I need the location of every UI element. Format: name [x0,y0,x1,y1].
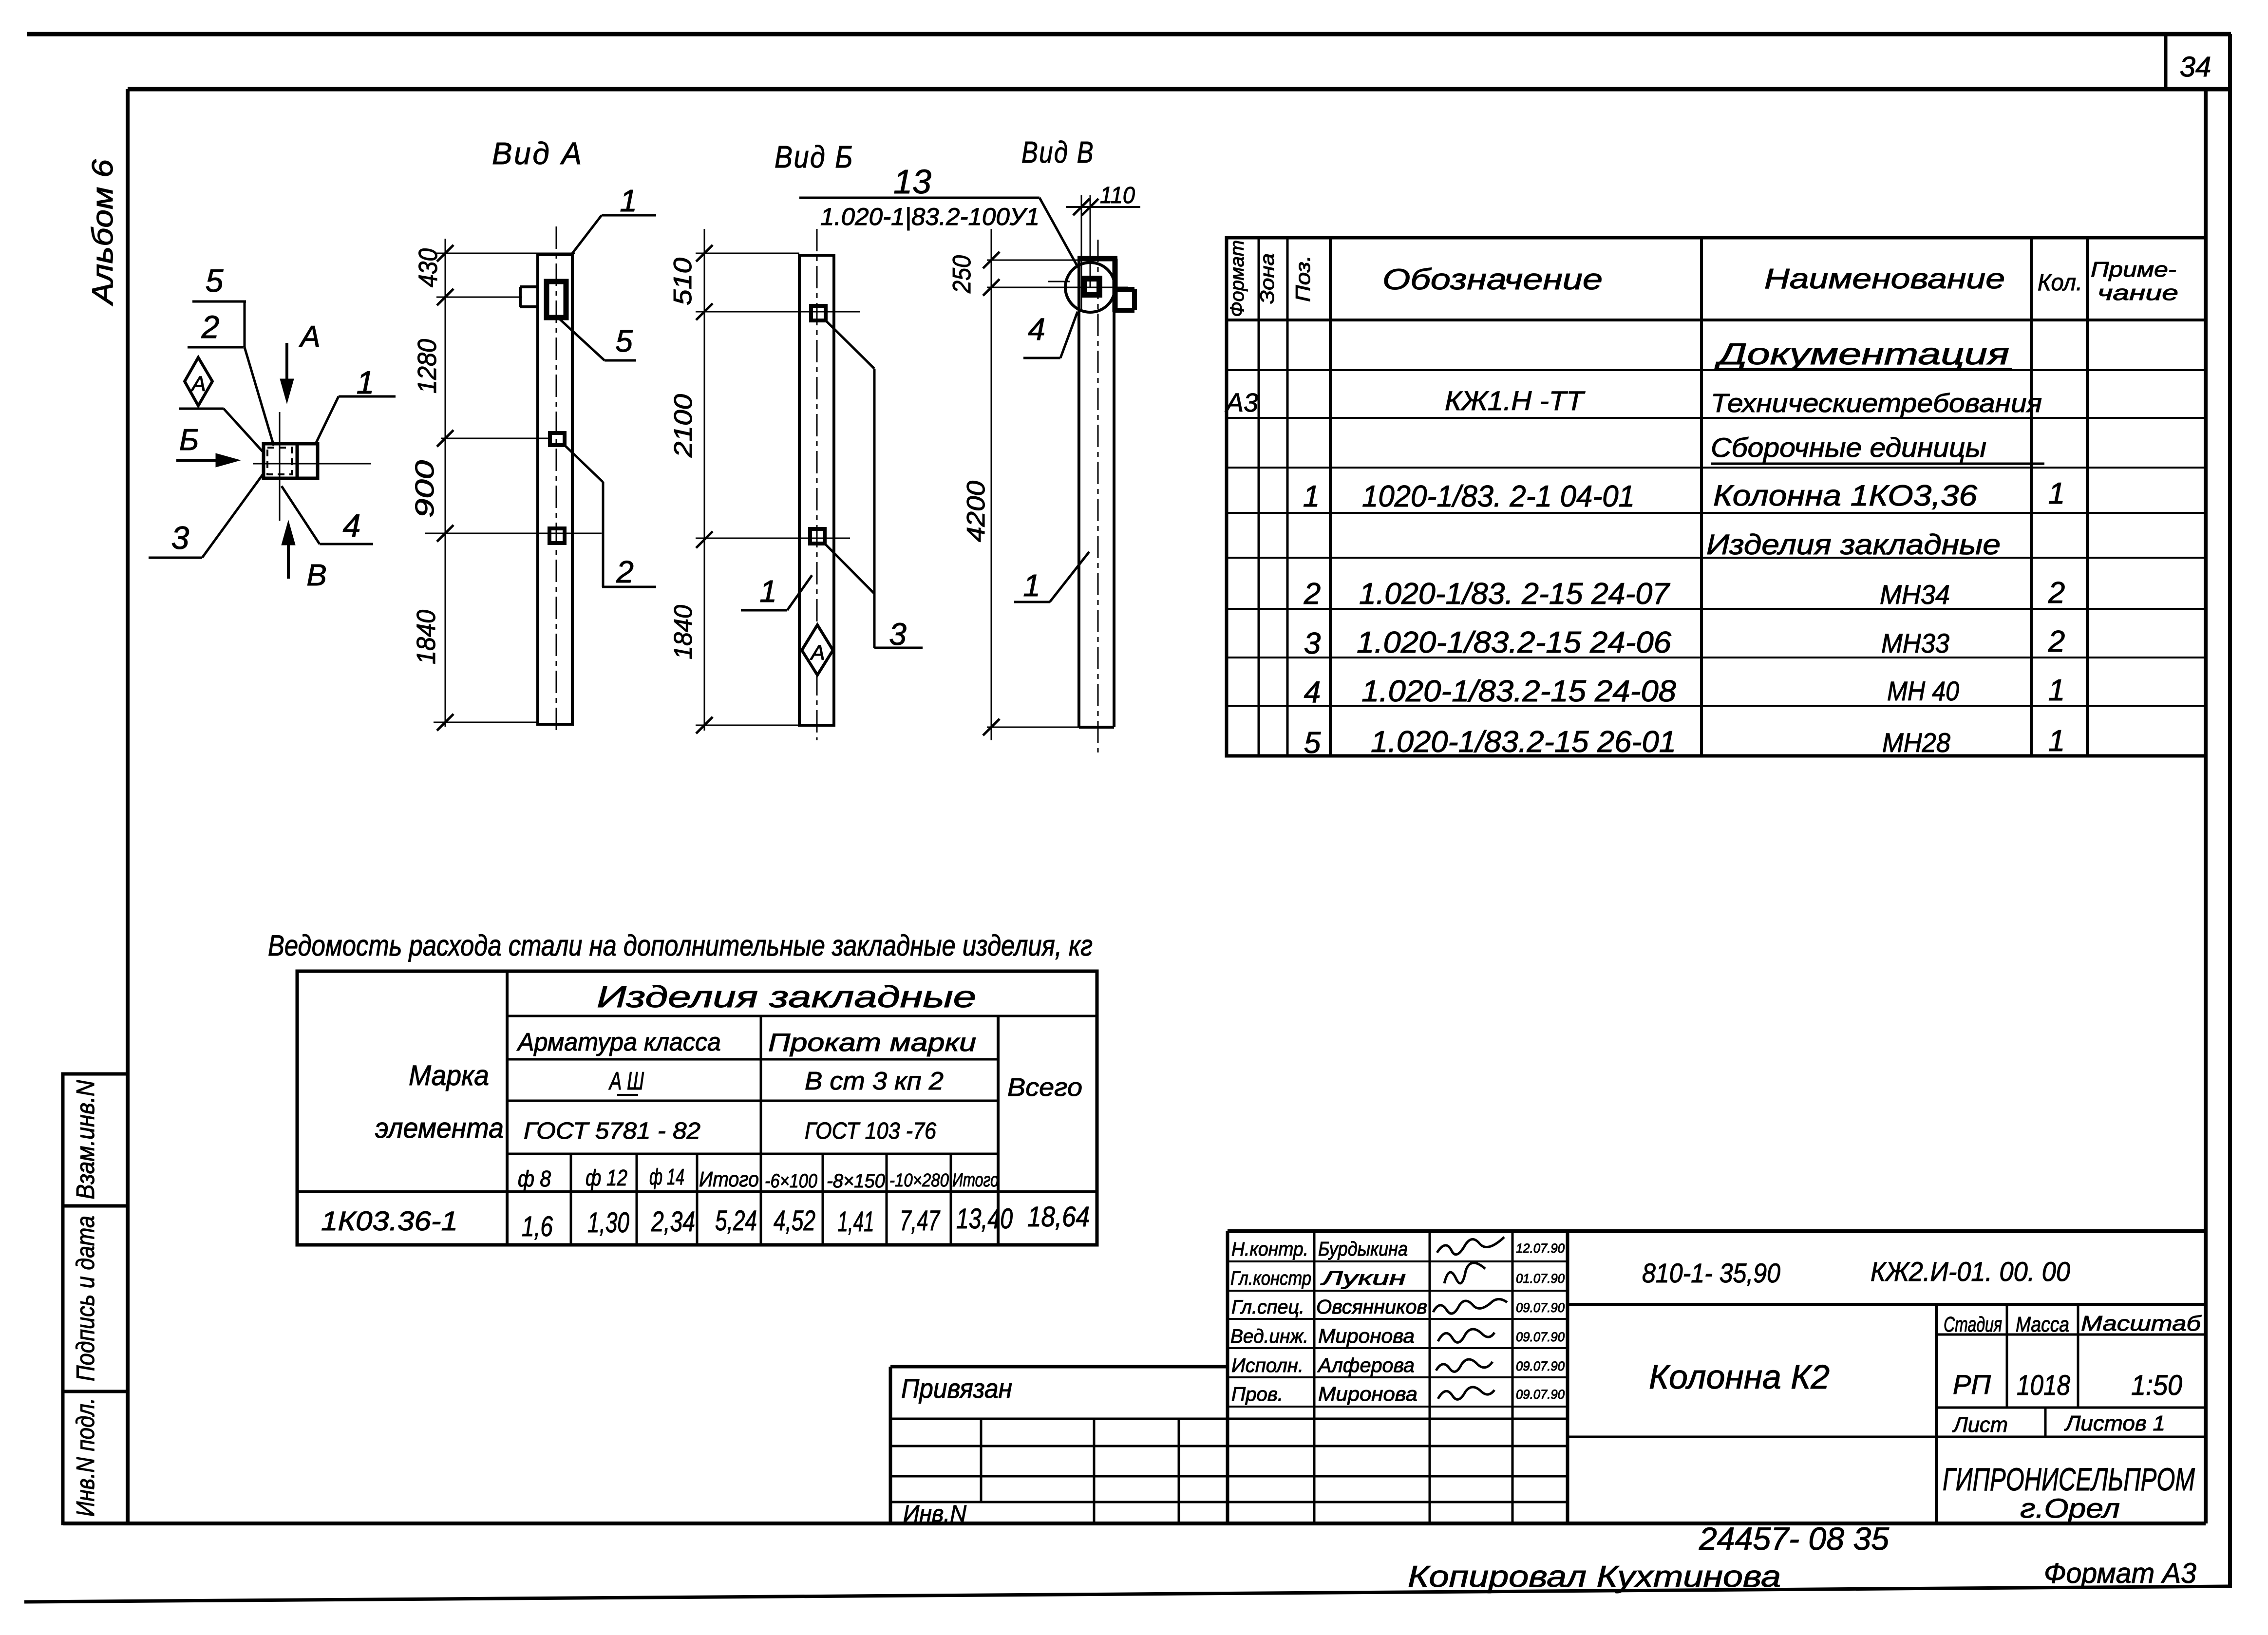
svg-text:ф 12: ф 12 [586,1165,627,1190]
svg-text:2: 2 [1304,577,1321,611]
org row top [1568,1436,2206,1438]
left stamp divider 2 [63,1390,128,1393]
svg-text:13,40: 13,40 [956,1203,1013,1235]
svg-text:1018: 1018 [2017,1370,2070,1401]
svg-text:09.07.90: 09.07.90 [1516,1300,1565,1315]
view A embed item 5 [547,282,566,318]
view V dim line [991,229,992,740]
svg-text:-8×150: -8×150 [827,1170,885,1192]
signature label col [1313,1231,1316,1523]
svg-text:7,47: 7,47 [900,1205,941,1237]
svg-text:Колонна 1КО3,36: Колонна 1КО3,36 [1713,479,1978,512]
spec col Поз right [1329,238,1332,756]
svg-text:Кол.: Кол. [2038,270,2082,296]
svg-text:Формат А3: Формат А3 [2044,1558,2196,1589]
view V leader 4 [1023,357,1060,359]
spec underline Документация [1716,368,2012,371]
svg-text:1: 1 [759,574,777,609]
sheet top rule [27,32,2231,37]
svg-text:2: 2 [201,309,220,345]
svg-text:Вид В: Вид В [1021,136,1095,169]
left stamp divider 1 [63,1204,128,1208]
svg-text:МН 40: МН 40 [1887,676,1959,706]
svg-text:КЖ1.Н -ТТ: КЖ1.Н -ТТ [1445,385,1586,416]
svg-text:09.07.90: 09.07.90 [1516,1330,1565,1344]
svg-text:13: 13 [893,163,931,201]
svg-text:Вид А: Вид А [492,136,584,171]
plan embed dashed [267,448,292,474]
plan leader 4 rule [320,543,373,545]
plan leader 1 rule [339,395,396,398]
plan leader 3 diagonal [202,473,264,558]
svg-text:Б: Б [179,423,199,457]
svg-text:1.020-1/83. 2-15 24-07: 1.020-1/83. 2-15 24-07 [1359,577,1671,611]
svg-text:ф 8: ф 8 [518,1166,551,1191]
view V hidden edge dash [1048,281,1070,282]
spec col Зона right [1286,238,1289,756]
svg-text:09.07.90: 09.07.90 [1516,1387,1565,1402]
svg-text:1840: 1840 [669,605,698,659]
svg-text:Н.контр.: Н.контр. [1231,1239,1308,1260]
view V dim ticks [983,252,1000,268]
svg-text:Исполн.: Исполн. [1231,1355,1304,1376]
svg-text:А3: А3 [1225,388,1258,417]
svg-text:2: 2 [616,554,634,589]
svg-text:3: 3 [1304,627,1321,660]
view B embed item 3b [810,529,825,544]
svg-text:ГОСТ 5781 - 82: ГОСТ 5781 - 82 [524,1118,700,1144]
view V extension lines [987,260,1079,261]
view A extension lines [436,253,575,254]
sheet bottom rule [24,1586,2231,1602]
signature table right edge [1566,1231,1569,1523]
main row 810 bottom [1568,1303,2206,1306]
list col divider [2044,1408,2047,1437]
svg-text:34: 34 [2180,51,2211,83]
svg-text:-6×100: -6×100 [765,1170,817,1192]
plan flag diamond A [185,357,212,406]
steel col Всего left [997,1016,1000,1245]
svg-text:ГИПРОНИСЕЛЬПРОМ: ГИПРОНИСЕЛЬПРОМ [1943,1461,2195,1497]
svg-text:2: 2 [2048,625,2065,658]
svg-text:Прокат марки: Прокат марки [768,1029,976,1057]
title block top edge [1228,1229,2206,1233]
svg-text:24457- 08 35: 24457- 08 35 [1699,1521,1889,1557]
svg-text:Документация: Документация [1714,338,2009,371]
svg-text:Вед.инж.: Вед.инж. [1230,1326,1308,1347]
frame top border [128,87,2230,92]
view arrow A head [280,379,294,403]
svg-text:4: 4 [343,507,361,544]
stadia header bottom [1936,1334,2206,1336]
svg-text:Колонна К2: Колонна К2 [1649,1358,1830,1396]
svg-text:чание: чание [2098,281,2178,305]
view A embed item 2a [550,433,565,445]
svg-text:250: 250 [948,255,976,294]
svg-text:Формат: Формат [1227,240,1248,317]
stadia col divider [1935,1304,1938,1523]
spec col Формат right [1258,238,1260,756]
svg-text:4200: 4200 [962,481,990,542]
view arrow B head [216,453,240,467]
svg-text:Ведомость расхода стали на до: Ведомость расхода стали на дополнительны… [268,929,1093,962]
view B leader 1 [741,609,787,612]
svg-text:4: 4 [1028,312,1045,347]
svg-text:ГОСТ 103 -76: ГОСТ 103 -76 [805,1118,936,1144]
svg-text:МН34: МН34 [1880,579,1950,610]
svg-text:Стадия: Стадия [1944,1313,2002,1336]
svg-text:Итого: Итого [699,1167,759,1191]
svg-text:Итого: Итого [952,1169,999,1191]
view A dim line [445,239,446,727]
signature rows [1228,1260,1568,1262]
svg-text:2,34: 2,34 [651,1206,695,1238]
steel header row4 bottom [507,1153,998,1155]
view arrow V head [282,521,295,545]
privyazan box left [889,1367,892,1523]
svg-text:Поз.: Поз. [1291,255,1314,302]
svg-text:В ст 3 кп 2: В ст 3 кп 2 [805,1067,944,1095]
steel col Марка right [506,971,509,1245]
svg-text:1: 1 [357,364,375,400]
spec table outer border [1227,238,2206,756]
steel table outer border [297,971,1097,1245]
frame left border [126,89,130,1523]
view V column top thick edge [1077,256,1117,262]
svg-text:1.020-1/83.2-15 24-08: 1.020-1/83.2-15 24-08 [1361,675,1677,708]
svg-text:А: А [190,372,206,396]
svg-text:А: А [298,320,320,354]
svg-text:Лукин: Лукин [1320,1267,1406,1289]
steel data row top [297,1190,1097,1193]
svg-text:Копировал Кухтинова: Копировал Кухтинова [1408,1560,1781,1594]
svg-text:1840: 1840 [412,610,441,664]
svg-text:2100: 2100 [669,394,698,458]
svg-text:Листов 1: Листов 1 [2064,1411,2165,1435]
frame bottom border [63,1522,2206,1525]
svg-text:1:50: 1:50 [2131,1370,2182,1401]
svg-text:Овсянников: Овсянников [1316,1296,1427,1318]
spec col Кол right [2086,238,2089,756]
svg-text:Приме-: Приме- [2091,258,2176,282]
left grid row 4 [890,1501,1568,1503]
svg-text:4,52: 4,52 [774,1205,815,1237]
plan centerline horizontal [253,463,371,465]
svg-text:КЖ2.И-01. 00. 00: КЖ2.И-01. 00. 00 [1871,1256,2070,1287]
view V hidden edge dash 2 [1116,287,1128,288]
view arrow A shaft [285,343,288,390]
svg-text:5: 5 [615,323,633,358]
steel header row2 bottom [507,1058,998,1061]
view V bracket MH40 [1115,287,1134,292]
svg-text:Техническиетребования: Техническиетребования [1711,389,2042,418]
svg-text:Изделия закладные: Изделия закладные [597,980,976,1014]
view B extension lines [696,253,799,254]
plan flag leader [224,409,263,451]
privyazan box top [890,1365,1228,1369]
svg-text:1: 1 [2048,477,2065,510]
svg-text:Гл.спец.: Гл.спец. [1231,1297,1304,1318]
110 dim line [1066,206,1140,208]
svg-text:МН33: МН33 [1881,628,1949,658]
page number box divider [2164,34,2168,89]
svg-text:1,6: 1,6 [522,1211,553,1242]
plan label connector [244,301,246,347]
view V leader 1 [1014,601,1050,603]
plan column divider [296,444,299,478]
plan leader 3 rule [149,557,202,559]
svg-text:Алферова: Алферова [1317,1354,1415,1376]
view V column outline [1077,259,1080,727]
svg-text:1020-1/83. 2-1 04-01: 1020-1/83. 2-1 04-01 [1362,480,1635,513]
plan leader 4 diagonal [282,486,320,544]
steel divider Арматура/Прокат [760,1016,762,1245]
plan flag rule [179,408,224,410]
110 dim ticks [1073,199,1090,215]
view V corner piece [1113,259,1118,312]
view arrow B shaft [176,459,228,462]
spec header bottom [1227,319,2206,321]
left grid col 1 [980,1419,983,1502]
svg-text:Гл.констр: Гл.констр [1230,1268,1311,1289]
massa col divider [2006,1304,2008,1408]
svg-text:В: В [306,559,326,592]
view V embed item 4 [1084,279,1099,295]
signature squiggles [1433,1237,1507,1399]
svg-text:МН28: МН28 [1882,727,1950,758]
svg-text:09.07.90: 09.07.90 [1516,1359,1565,1373]
left grid row 3 [890,1475,1568,1478]
svg-text:110: 110 [1100,183,1135,208]
frame right border [2204,89,2208,1523]
svg-text:900: 900 [410,460,439,518]
svg-text:ф 14: ф 14 [649,1164,684,1189]
callout rule [799,197,1039,199]
view A dim ticks [437,245,454,262]
view B flag diamond A [802,625,833,675]
svg-text:Взам.инв.N: Взам.инв.N [72,1080,100,1199]
svg-text:г.Орел: г.Орел [2020,1493,2120,1523]
svg-text:Изделия закладные: Изделия закладные [1706,529,2001,561]
plan leader 5/2 to column [245,347,274,446]
svg-text:1: 1 [2048,674,2065,707]
svg-text:Миронова: Миронова [1318,1325,1415,1347]
steel А III underline [617,1094,638,1096]
svg-text:3: 3 [889,617,907,652]
view A leader 2 [602,586,656,588]
svg-text:4: 4 [1304,676,1321,709]
svg-text:Масса: Масса [2016,1313,2069,1336]
svg-text:Бурдыкина: Бурдыкина [1318,1238,1408,1260]
list row top [1936,1407,2206,1409]
view arrow V shaft [287,534,290,579]
view A leader 1 [602,214,656,217]
svg-text:01.07.90: 01.07.90 [1516,1271,1565,1286]
plan centerline vertical [279,412,281,521]
svg-text:1280: 1280 [413,339,442,394]
left grid col 2 [1093,1419,1096,1523]
svg-text:12.07.90: 12.07.90 [1516,1241,1565,1256]
svg-text:5,24: 5,24 [715,1205,757,1237]
spec col Наименование right [2030,238,2033,756]
svg-text:Сборочные единицы: Сборочные единицы [1711,432,1986,463]
svg-text:1: 1 [620,183,637,218]
svg-text:Привязан: Привязан [901,1373,1012,1404]
view A console bracket [519,287,522,307]
svg-text:Альбом 6: Альбом 6 [86,159,119,306]
left grid row 1 [890,1418,1568,1420]
svg-text:Обозначение: Обозначение [1382,263,1603,296]
svg-text:Лист: Лист [1952,1413,2008,1437]
svg-text:1.020-1|83.2-100У1: 1.020-1|83.2-100У1 [820,203,1039,231]
svg-text:2: 2 [2048,576,2065,610]
svg-text:А: А [809,641,825,665]
svg-text:510: 510 [669,258,697,305]
svg-text:Арматура класса: Арматура класса [516,1028,721,1056]
svg-text:1: 1 [2048,724,2065,758]
view A column outline [536,255,539,724]
spec row lines [1227,369,2206,371]
spec col Обозначение right [1700,238,1703,756]
svg-text:Миронова: Миронова [1318,1383,1417,1405]
svg-text:5: 5 [206,263,224,299]
steel header row3 bottom [507,1100,998,1102]
spec underline Сборочные единицы [1711,463,2044,465]
view V detail circle [1065,263,1115,312]
svg-text:Вид Б: Вид Б [775,139,854,174]
view V centerline [1097,240,1099,752]
svg-text:Инв.N: Инв.N [903,1501,966,1527]
svg-text:1К03.36-1: 1К03.36-1 [321,1205,458,1236]
svg-text:Масштаб: Масштаб [2081,1312,2202,1335]
svg-text:-10×280: -10×280 [889,1170,949,1191]
view B dim line [704,229,705,731]
left grid col 3 [1178,1419,1180,1523]
signature table left edge [1226,1231,1229,1523]
svg-text:Наименование: Наименование [1764,263,2005,295]
svg-text:элемента: элемента [375,1112,504,1144]
svg-text:1.020-1/83.2-15 24-06: 1.020-1/83.2-15 24-06 [1357,626,1672,659]
svg-text:1: 1 [1023,568,1040,603]
svg-text:РП: РП [1953,1369,1991,1400]
plan column body [264,444,318,478]
masshtab col divider [2077,1304,2079,1408]
left stamp box [63,1074,128,1523]
svg-text:1,41: 1,41 [838,1206,874,1238]
view B dim ticks [696,245,713,262]
svg-text:Зона: Зона [1257,253,1278,304]
view A embed item 2b [549,528,565,543]
plan label 5 underline [192,301,246,303]
left grid row 2 [890,1445,1568,1447]
view B leader 3 [874,647,923,649]
svg-text:5: 5 [1304,726,1321,760]
svg-text:Всего: Всего [1007,1073,1082,1102]
svg-text:18,64: 18,64 [1027,1201,1090,1233]
svg-text:А Ш: А Ш [608,1067,644,1095]
view A leader 5 [605,359,636,362]
steel sub columns [570,1154,572,1245]
svg-text:810-1- 35,90: 810-1- 35,90 [1642,1258,1780,1288]
view B centerline [816,229,818,740]
steel header row1 bottom [507,1015,1097,1017]
view B column outline [798,255,801,725]
plan leader 1 diagonal [315,396,339,445]
svg-text:1.020-1/83.2-15 26-01: 1.020-1/83.2-15 26-01 [1371,725,1676,759]
svg-text:3: 3 [171,520,189,556]
sheet outer right border [2228,34,2232,1588]
110 dim extension lines [1081,195,1082,311]
plan label 2 underline [188,346,244,349]
signature sig col [1512,1231,1514,1523]
svg-text:Подпись и дата: Подпись и дата [72,1216,100,1381]
svg-text:1: 1 [1303,480,1320,513]
view A centerline [556,226,557,731]
svg-text:Марка: Марка [409,1060,489,1091]
svg-text:430: 430 [414,248,443,287]
svg-text:Инв.N подл.: Инв.N подл. [72,1398,100,1517]
signature name col [1429,1231,1431,1523]
view B embed item 3a [811,306,826,320]
svg-text:1,30: 1,30 [587,1207,629,1239]
callout leader to view V [1039,198,1077,266]
svg-text:Пров.: Пров. [1231,1384,1283,1405]
